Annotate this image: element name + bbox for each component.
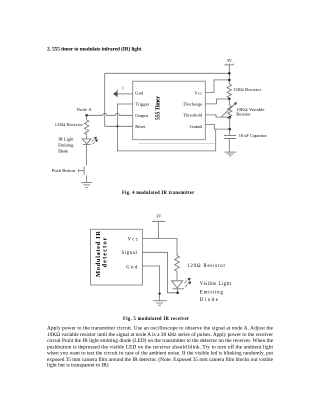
wire control pin [205,124,229,129]
svg-text:3V: 3V [227,58,233,63]
pin Vcc [194,91,202,96]
label pin number 1 [122,86,124,91]
wire reset pin [105,125,133,127]
wire resistor to visible LED [176,272,178,281]
svg-text:Visible Light: Visible Light [200,282,232,287]
node junction LED signal [176,292,179,295]
paragraph body text [47,326,274,369]
svg-text:120Ω Resistor: 120Ω Resistor [55,122,84,127]
label push button [52,168,76,173]
label 10K variable resistor [236,107,264,117]
svg-text:Gnd: Gnd [135,91,144,96]
svg-text:circuit Point the IR light emi: circuit Point the IR light emitting diod… [47,337,274,344]
wire receiver supply rail [158,221,160,238]
pin Output [135,113,149,118]
label 150 ohm resistor [233,87,262,92]
ground transmitter left [81,182,92,187]
wire signal pin [143,252,178,292]
wire discharge pin [205,99,229,104]
node trigger reset crossing [116,125,118,127]
wire resistor to LED [86,135,88,139]
switch push button [78,166,84,175]
label modulated IR detector [95,231,108,277]
power 3V supply receiver [152,213,166,221]
arrow gnd receiver [158,293,161,295]
pin Vcc receiver [128,237,138,242]
wire VR1 to capacitor [229,117,231,135]
ground receiver [153,301,167,306]
label 120 ohm resistor receiver [187,264,225,269]
svg-text:Vcc: Vcc [128,237,138,242]
caption figure 5 [123,317,189,322]
svg-text:150Ω Resistor: 150Ω Resistor [233,87,262,92]
wire box shadow line [139,143,216,145]
svg-text:Apply power to the transmitter: Apply power to the transmitter circuit. … [47,326,274,332]
pin Gnd receiver [126,266,138,271]
resistor R1 150 ohm [227,84,231,98]
pin Threshold [183,113,203,118]
node junction control [228,128,231,131]
detector U2 modulated IR detector box [91,229,143,285]
wire capacitor to ground [228,139,230,153]
svg-text:Reset: Reset [135,124,146,129]
node junction top rail [228,72,231,75]
svg-text:Threshold: Threshold [183,113,203,118]
wire Vcc receiver [143,239,178,256]
svg-text:1: 1 [122,86,124,91]
wire gnd receiver [143,266,160,301]
pin Gnd [135,91,144,96]
svg-text:Output: Output [135,113,149,118]
svg-text:IR Light: IR Light [58,136,74,141]
pin Discharge [183,101,202,106]
svg-text:2. 555 timer to modulate infra: 2. 555 timer to modulate infrared (IR) l… [47,45,142,52]
node junction discharge [228,98,231,101]
power 3V supply transmitter [224,58,234,65]
svg-text:10 uF Capacitor: 10 uF Capacitor [239,133,268,138]
svg-text:exposed 35 mm camera film arou: exposed 35 mm camera film around the IR … [47,356,274,363]
svg-text:Diode: Diode [58,148,68,153]
pin Control [190,124,203,129]
wire push button to ground [86,175,88,182]
svg-text:3V: 3V [156,213,162,218]
wire threshold pin [205,115,229,117]
diode D1 IR LED [82,137,98,145]
section title [47,45,142,52]
svg-text:when you want to test the circ: when you want to test the circuit in cas… [47,350,274,357]
resistor R3 120 ohm receiver [175,256,180,273]
svg-text:Push Button: Push Button [52,168,76,173]
pin Reset [135,124,146,129]
capacitor C1 10uF [224,135,236,138]
label 555 Timer [155,96,161,120]
svg-text:Emitting: Emitting [58,143,74,148]
svg-text:Diode: Diode [200,298,219,303]
node junction threshold [228,116,231,119]
wire node A to resistor [86,115,88,120]
pin Trigger [135,102,150,107]
svg-text:Signal: Signal [122,251,138,256]
svg-text:10KΩ variable resistor until t: 10KΩ variable resistor until the signal … [47,331,273,338]
pin Signal [122,251,138,256]
svg-text:Resistor: Resistor [236,111,251,116]
svg-text:Fig. 5 modulated IR receiver: Fig. 5 modulated IR receiver [123,317,189,322]
wire gnd pin with arrow [113,89,133,97]
wire trigger routing [117,104,215,151]
wire LED to push button [86,145,88,166]
svg-text:light but is transparent to IR: light but is transparent to IR) [47,361,109,368]
wire reset column vertical [104,73,106,126]
svg-text:Vcc: Vcc [194,91,202,96]
caption figure 4 [122,191,194,196]
wire top rail to reset column [105,72,230,74]
node A [85,114,88,117]
svg-text:Discharge: Discharge [183,101,202,106]
label 120 ohm resistor [55,122,84,127]
wire output pin with hops [87,113,133,115]
label node A [77,107,93,112]
resistor VR1 10K variable [222,102,237,119]
svg-text:Fig. 4 modulated IR transmitte: Fig. 4 modulated IR transmitter [122,191,194,196]
label 10 uF capacitor [239,133,268,138]
label visible LED [200,282,232,303]
ground transmitter right [224,152,236,156]
resistor R2 120 ohm [84,120,88,135]
op-amp U1 555 timer box [133,81,206,140]
svg-text:Gnd: Gnd [126,266,138,271]
svg-text:Node A: Node A [77,107,93,112]
node junction Vcc [228,79,231,82]
wire LED cathode down [177,289,179,293]
diode D2 visible LED [172,278,192,289]
svg-text:Control: Control [190,124,203,129]
svg-text:pushbutton is depressed the vi: pushbutton is depressed the visible LED … [47,343,274,350]
svg-text:555 Timer: 555 Timer [155,96,161,120]
label IR LED [58,136,74,153]
wire Vcc pin [205,80,229,93]
wire R1 to VR1 [228,98,230,106]
svg-text:Trigger: Trigger [135,102,150,107]
wire supply rail [228,65,230,84]
